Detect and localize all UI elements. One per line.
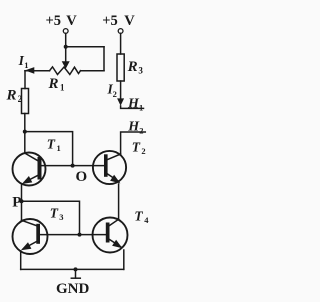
svg-text:GND: GND [56, 281, 90, 297]
wire ground rail [21, 268, 124, 270]
svg-text:1: 1 [57, 143, 61, 153]
wire [66, 46, 104, 48]
svg-text:V: V [124, 13, 135, 29]
transistor T2 [93, 151, 126, 184]
wire [24, 71, 26, 89]
wire [103, 47, 105, 71]
arrow emitter T4 [112, 240, 122, 249]
node junction dot [78, 233, 82, 237]
svg-text:2: 2 [18, 94, 23, 104]
svg-text:R: R [48, 76, 59, 92]
svg-text:1: 1 [139, 102, 143, 112]
wire [20, 251, 22, 270]
node GND junction dot [74, 267, 78, 271]
svg-text:2: 2 [139, 125, 143, 135]
svg-text:2: 2 [113, 89, 117, 99]
wire [24, 114, 26, 154]
svg-text:R: R [6, 87, 17, 103]
resistor R3 [117, 54, 124, 81]
svg-text:T: T [50, 206, 59, 221]
wire base T1 to T2 [41, 165, 105, 167]
wire [21, 184, 23, 220]
svg-text:T: T [134, 208, 143, 223]
svg-text:R: R [127, 59, 138, 75]
node +5V right terminal [118, 29, 123, 34]
transistor T2 base bar [104, 154, 108, 177]
resistor R1 [50, 67, 81, 75]
transistor T1 [13, 153, 46, 186]
wire [120, 33, 122, 54]
node junction dot [23, 130, 27, 134]
svg-text:3: 3 [138, 65, 143, 75]
arrow wiper R1 [62, 61, 70, 69]
wire P to bases of T3/T4 [22, 201, 80, 234]
node P junction dot [20, 199, 24, 203]
wire base T3 to T4 [40, 234, 106, 236]
svg-text:1: 1 [60, 83, 65, 93]
wire [123, 250, 125, 269]
node junction dot [64, 45, 68, 49]
svg-text:4: 4 [144, 215, 149, 225]
node +5V left terminal [63, 29, 68, 34]
transistor T4 base bar [106, 223, 110, 243]
arrow current I2 [117, 98, 124, 105]
wire lead H2 [121, 132, 146, 154]
ground [75, 269, 77, 278]
svg-text:3: 3 [59, 212, 63, 222]
svg-text:2: 2 [141, 146, 145, 156]
svg-text:1: 1 [24, 60, 28, 70]
arrow emitter T1 [22, 176, 33, 184]
transistor T3 [13, 219, 48, 254]
transistor T3 base bar [36, 224, 40, 244]
arrow current I1 [25, 67, 34, 74]
node O junction dot [71, 164, 75, 168]
transistor T4 [93, 218, 128, 253]
svg-text:V: V [66, 13, 77, 29]
wire [120, 81, 122, 100]
svg-text:+5: +5 [46, 13, 62, 29]
svg-text:O: O [76, 169, 88, 185]
transistor T1 base bar [38, 157, 42, 180]
arrow emitter T2 [110, 175, 120, 184]
wire [65, 33, 67, 46]
wire [25, 70, 50, 72]
svg-text:T: T [47, 137, 56, 152]
wire [118, 184, 120, 219]
svg-text:P: P [12, 194, 21, 210]
resistor R2 [22, 89, 29, 114]
wire base feed T1/T2 [25, 132, 73, 166]
wire [81, 70, 105, 72]
wire lead H1 [121, 106, 144, 108]
arrow emitter T3 [21, 242, 32, 250]
svg-text:T: T [132, 139, 141, 154]
svg-text:+5: +5 [102, 13, 118, 29]
wire wiper of R1 [65, 47, 67, 62]
